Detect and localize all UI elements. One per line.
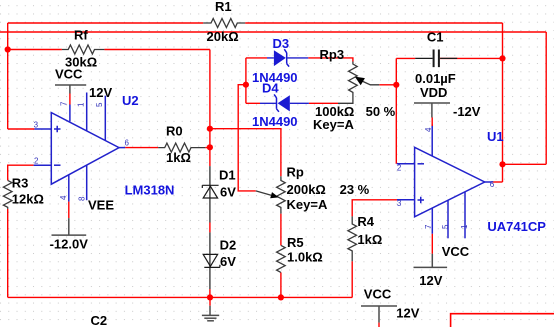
- svg-text:3: 3: [397, 199, 402, 208]
- svg-text:6: 6: [490, 180, 495, 189]
- capacitor C1: [415, 50, 457, 68]
- svg-text:C2: C2: [91, 313, 108, 327]
- junction node U1 output: [499, 161, 505, 167]
- op-amp U2 pin7 power segment: [69, 94, 71, 105]
- potentiometer Rp3 wiper arrow: [355, 77, 365, 86]
- svg-text:Rf: Rf: [74, 28, 88, 43]
- svg-text:1kΩ: 1kΩ: [166, 150, 191, 165]
- junction node Rp3 wiper: [393, 82, 399, 88]
- diode D4: [260, 94, 309, 111]
- wire left vertical x=7.7 upper: [7, 23, 9, 129]
- junction node R5 bottom: [278, 294, 284, 300]
- power VCC U2 12V: [55, 85, 86, 94]
- svg-text:5: 5: [95, 102, 104, 107]
- svg-text:23 %: 23 %: [340, 182, 370, 197]
- wire U1 output stub: [493, 181, 503, 183]
- diode D3: [267, 49, 308, 66]
- svg-text:C1: C1: [427, 30, 444, 45]
- svg-text:6V: 6V: [220, 185, 236, 200]
- wire Rf rail y=49.5: [8, 49, 210, 51]
- svg-text:-12.0V: -12.0V: [50, 236, 89, 251]
- junction node D3 D4 left: [243, 82, 249, 88]
- svg-text:50 %: 50 %: [366, 104, 396, 119]
- svg-text:4: 4: [59, 195, 68, 200]
- svg-text:VCC: VCC: [364, 287, 392, 302]
- svg-text:5: 5: [441, 224, 450, 229]
- svg-text:R0: R0: [166, 124, 183, 139]
- wire D3 rail y=58.4: [246, 58, 353, 62]
- potentiometer Rp wiper arrow: [270, 192, 279, 198]
- svg-text:2: 2: [34, 157, 39, 166]
- potentiometer Rp: [256, 176, 285, 213]
- svg-text:U1: U1: [487, 129, 504, 144]
- wire R4 top from U1 pin3: [352, 200, 397, 217]
- op-amp U1 UA741CP: [397, 125, 493, 239]
- wire D4 rail y=103.3: [246, 102, 338, 104]
- resistor R4: [348, 216, 357, 261]
- svg-text:D2: D2: [220, 238, 237, 253]
- resistor Rf: [62, 45, 105, 54]
- op-amp U1 pin4 power segment: [431, 118, 433, 127]
- wire y=128.7 to Rp top: [210, 129, 281, 177]
- wire right outer vertical x=546: [545, 32, 547, 164]
- wire R4 bottom to rail corner: [351, 261, 353, 297]
- wire to U2 pin3: [8, 128, 35, 130]
- svg-text:LM318N: LM318N: [125, 182, 175, 197]
- svg-text:1: 1: [76, 102, 85, 107]
- svg-text:7: 7: [424, 224, 433, 229]
- potentiometer Rp3: [338, 62, 379, 104]
- svg-text:D3: D3: [273, 36, 290, 51]
- wire C1 right to x=502.5: [440, 57, 503, 59]
- junction node C1 right: [499, 55, 505, 61]
- power VDD U1 -12V: [414, 103, 450, 118]
- svg-text:2: 2: [397, 163, 402, 172]
- svg-text:D1: D1: [219, 168, 236, 183]
- wire R5 bottom to rail: [280, 272, 282, 297]
- component box bottom right: [451, 314, 554, 327]
- svg-text:UA741CP: UA741CP: [487, 219, 546, 234]
- op-amp U2 pin4 power segment: [68, 202, 70, 219]
- wire bottom ground rail y=297.4: [8, 296, 353, 298]
- wire mid vertical x=209.9 Rf to D1: [209, 50, 211, 167]
- wire Rp3 wiper to node: [379, 84, 396, 86]
- svg-text:12V: 12V: [396, 305, 419, 320]
- resistor R3: [3, 180, 12, 209]
- svg-text:0.01µF: 0.01µF: [415, 71, 456, 86]
- wire Rp bottom to R5: [280, 214, 282, 246]
- resistor R1: [203, 19, 245, 28]
- op-amp U2 LM318N: [34, 93, 126, 202]
- svg-text:1: 1: [460, 224, 469, 229]
- svg-text:VEE: VEE: [88, 198, 114, 213]
- junction node ground rail: [207, 294, 213, 300]
- op-amp U1 pin7 power segment: [431, 234, 433, 254]
- svg-text:VCC: VCC: [442, 244, 470, 259]
- wire U1 output link y=164.3: [503, 163, 547, 165]
- resistor R0: [158, 143, 205, 152]
- svg-text:R1: R1: [215, 0, 232, 14]
- power VCC bottom red stub: [378, 323, 380, 327]
- resistor R5: [277, 245, 286, 272]
- svg-text:VDD: VDD: [420, 85, 447, 100]
- svg-text:Key=A: Key=A: [313, 117, 354, 132]
- junction node Rf tap: [5, 46, 11, 52]
- svg-text:20kΩ: 20kΩ: [207, 29, 239, 44]
- svg-text:Rp3: Rp3: [320, 47, 345, 62]
- wire to U2 pin2 and down to R3: [8, 165, 34, 297]
- svg-text:U2: U2: [122, 93, 139, 108]
- wire node vertical x=396.3 C1 to U1 pin2: [396, 58, 415, 163]
- wire left loop vertical x=245.9: [245, 58, 247, 103]
- svg-text:R4: R4: [357, 214, 374, 229]
- svg-text:4: 4: [424, 127, 433, 132]
- power VCC U1 12V: [414, 254, 448, 268]
- svg-text:R3: R3: [12, 176, 29, 191]
- svg-text:6V: 6V: [220, 254, 236, 269]
- zener diode D2: [203, 232, 220, 289]
- svg-text:1.0kΩ: 1.0kΩ: [287, 250, 323, 265]
- wire top feedback R1 rail y=23: [8, 22, 503, 24]
- svg-text:12V: 12V: [89, 85, 112, 100]
- power VEE U2 -12.0V: [52, 218, 87, 235]
- svg-text:R5: R5: [287, 235, 304, 250]
- svg-text:3: 3: [34, 121, 39, 130]
- zener diode D1: [202, 166, 218, 222]
- svg-text:1N4490: 1N4490: [252, 114, 298, 129]
- svg-text:Key=A: Key=A: [287, 197, 328, 212]
- wire U2 output to R0: [125, 147, 210, 149]
- ground: [209, 297, 211, 305]
- svg-text:7: 7: [60, 101, 69, 106]
- svg-text:6: 6: [125, 139, 130, 148]
- wire loop tap to x=238.2: [238, 85, 256, 191]
- svg-text:8: 8: [78, 196, 87, 201]
- wire horizontal y=32 full width: [0, 31, 546, 33]
- svg-text:-12V: -12V: [453, 104, 481, 119]
- wire between D1 and D2: [209, 223, 211, 233]
- svg-text:Rp: Rp: [287, 165, 304, 180]
- svg-text:VCC: VCC: [55, 67, 83, 82]
- svg-text:D4: D4: [262, 81, 279, 96]
- wire right vertical x=502.5 from R1 rail to U1 output: [502, 23, 504, 182]
- svg-text:12kΩ: 12kΩ: [12, 191, 44, 206]
- power VCC bottom 12V: [361, 306, 397, 323]
- svg-text:12V: 12V: [419, 273, 442, 288]
- svg-text:200kΩ: 200kΩ: [287, 182, 326, 197]
- svg-text:1kΩ: 1kΩ: [357, 232, 382, 247]
- wire below D2 to ground rail: [209, 289, 211, 297]
- junction node Rp top wire: [207, 126, 213, 132]
- junction node R0 output: [207, 144, 213, 150]
